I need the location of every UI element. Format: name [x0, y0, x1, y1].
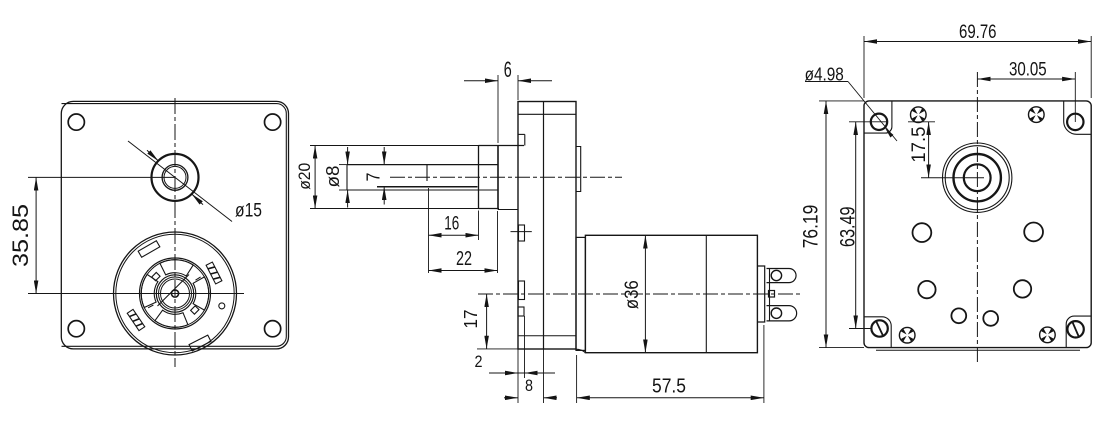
- dim 6 arrow left: [464, 80, 498, 82]
- shaft centerline: [390, 176, 622, 178]
- dimension 35.85: [8, 177, 36, 293]
- motor vent slot right: [193, 277, 209, 310]
- svg-text:ø36: ø36: [621, 280, 643, 309]
- dim 76.19 line: [825, 101, 827, 348]
- dia4.98 leader arrow: [885, 128, 894, 138]
- dim 22 extension left: [428, 240, 430, 273]
- motor can seam: [705, 235, 707, 352]
- front mounting plate outline: [61, 101, 288, 349]
- rear small hole 4: [1014, 280, 1031, 297]
- rear plate hidden edge below bottom: [876, 349, 1080, 351]
- front corner hole bottom-left: [68, 321, 84, 337]
- housing top lip line: [518, 113, 576, 115]
- leader arrow lower: [192, 194, 203, 205]
- dim 57.5 extension right: [763, 325, 765, 403]
- vertical centerline: [174, 98, 176, 367]
- dim 6 extension right: [517, 75, 519, 100]
- dim 69.76 extension right: [1090, 36, 1092, 98]
- hub ring 1: [156, 275, 193, 312]
- rear corner hole bottom-left slash: [876, 320, 884, 336]
- terminal lower: [767, 306, 797, 321]
- dim 69.76 extension left: [863, 36, 865, 98]
- shaft horizontal centerline: [28, 176, 175, 178]
- dim 8 arrow right: [544, 397, 558, 399]
- dim 2 arrow right: [525, 372, 537, 374]
- motor outer circle inner line: [116, 234, 234, 352]
- svg-text:35.85: 35.85: [8, 204, 33, 267]
- boss dia20 left face: [478, 146, 480, 209]
- boss on housing right face: [576, 147, 581, 192]
- dim 6 extension left: [497, 75, 499, 143]
- terminal upper hole: [771, 270, 781, 280]
- motor vent slot left: [141, 274, 158, 307]
- svg-text:ø8: ø8: [323, 166, 343, 188]
- motor rim tab top-right with label marks: [206, 262, 222, 284]
- front plate inner offset line: [62, 104, 287, 347]
- rear corner hole top-right: [1067, 114, 1083, 130]
- terminal upper: [767, 269, 797, 283]
- dim 16 extension left: [428, 188, 430, 240]
- dim 69.76 line: [864, 41, 1091, 43]
- rear corner pad bottom-left: [864, 317, 891, 348]
- dim 2 extension left: [517, 349, 519, 378]
- plate top step horizontal: [518, 133, 525, 135]
- motor mid ring outer: [140, 258, 211, 329]
- rear shaft bearing circle: [954, 154, 1001, 201]
- dimension dia8 extension stubs: [339, 164, 347, 166]
- shaft bore inner: [164, 166, 186, 188]
- svg-text:16: 16: [444, 214, 459, 235]
- dim 2 extension right: [524, 316, 526, 378]
- key notch lower-right: [191, 306, 199, 314]
- motor mid ring inner: [141, 260, 208, 327]
- leader line for shaft diameter: [128, 141, 232, 222]
- dimension dia20 line: [314, 146, 316, 209]
- SIDE VIEW: [295, 57, 800, 403]
- motor outer circle: [114, 232, 237, 355]
- dim 8 extension right: [543, 349, 545, 403]
- dim 7 arrow bottom: [383, 187, 385, 205]
- rear small hole 1: [913, 223, 932, 242]
- shaft flat edge: [426, 165, 428, 181]
- shaft flat surface line: [377, 186, 478, 188]
- svg-text:7: 7: [364, 173, 384, 182]
- plate pad face: [497, 146, 499, 210]
- rear corner hole bottom-left: [871, 320, 887, 336]
- hub diagonal slot line: [158, 275, 190, 307]
- svg-text:76.19: 76.19: [799, 205, 823, 249]
- dim 76.19 extension top: [819, 100, 864, 102]
- motor body: [585, 235, 757, 352]
- motor vent slot top: [160, 260, 193, 276]
- FRONT VIEW: [8, 98, 289, 367]
- dim 63.49 extension bottom: [849, 328, 871, 330]
- dim dia36 line: [644, 235, 646, 352]
- rear vertical centerline: [976, 72, 978, 364]
- motor rim tab top-left: [138, 241, 160, 258]
- screw top-left: [911, 107, 927, 123]
- dim 2 arrow left: [506, 372, 518, 374]
- screw bottom-left: [899, 327, 915, 343]
- svg-text:ø15: ø15: [235, 200, 262, 222]
- dim 17 bottom extension: [477, 348, 518, 350]
- small hole on motor face: [219, 303, 225, 309]
- housing inner vertical line: [543, 102, 545, 350]
- motor rim tab bottom-right: [189, 335, 211, 351]
- front corner hole bottom-right: [265, 321, 281, 337]
- rear small hole 2: [1024, 223, 1043, 242]
- terminal connector face: [769, 269, 771, 321]
- plate top step vertical: [524, 134, 526, 145]
- svg-text:ø20: ø20: [295, 163, 314, 190]
- small tab bottom: [518, 307, 524, 316]
- hub ring 3: [161, 279, 190, 308]
- rear shaft circle inner: [964, 164, 991, 191]
- screw bottom-right: [1040, 327, 1056, 343]
- rear shaft circle outer2: [945, 146, 1009, 210]
- svg-text:17: 17: [461, 310, 481, 329]
- rear small hole 5: [951, 308, 966, 323]
- locating tab lower: [519, 281, 525, 300]
- dim 22 line: [429, 270, 498, 272]
- front corner hole top-left: [68, 114, 84, 130]
- terminal lower hole: [771, 308, 781, 318]
- boss bottom edge: [479, 208, 500, 210]
- rear corner hole bottom-right: [1067, 321, 1083, 337]
- motor centerline: [478, 293, 800, 295]
- dim 63.49 extension top: [849, 121, 871, 123]
- dia4.98 leader diagonal: [848, 82, 897, 142]
- rear small hole 6: [983, 311, 998, 326]
- housing bottom step line: [518, 335, 576, 337]
- boss top edge: [479, 145, 525, 147]
- dim 6 arrow right: [518, 80, 552, 82]
- rear small hole 3: [918, 281, 935, 298]
- hub center circle: [171, 290, 178, 297]
- rear shaft circle outer: [943, 143, 1012, 212]
- output shaft boss circle: [152, 154, 199, 201]
- radial dash lower-left: [148, 305, 153, 308]
- tab upper tick mark: [511, 231, 532, 233]
- dim 63.49 line: [855, 122, 857, 329]
- dim 7 arrow top: [383, 147, 385, 165]
- dim 22 extension right: [497, 211, 499, 273]
- svg-text:2: 2: [475, 352, 483, 371]
- motor rim tab bottom-left with label marks: [127, 309, 145, 330]
- shaft bore outer: [162, 165, 188, 191]
- shaft top edge: [347, 164, 498, 166]
- motor brush cap: [757, 266, 764, 322]
- screw top-right: [1029, 107, 1045, 123]
- dim 16 extension right: [478, 211, 480, 241]
- dim 8 arrow left: [504, 397, 518, 399]
- dim 16 line: [429, 234, 479, 236]
- rear corner pad bottom-right: [1066, 316, 1091, 347]
- motor horizontal centerline: [28, 293, 244, 295]
- locating tab upper: [519, 225, 525, 241]
- plate pad bottom step: [498, 209, 518, 211]
- svg-text:30.05: 30.05: [1009, 60, 1047, 81]
- dim 17.5 top extension: [871, 121, 887, 123]
- dia4.98 leader underline: [805, 81, 848, 83]
- radial dash upper-right: [196, 277, 201, 280]
- shaft left end: [346, 165, 348, 190]
- capacitor between terminals: [769, 291, 775, 298]
- svg-text:69.76: 69.76: [959, 22, 997, 43]
- rear corner hole top-left: [871, 114, 887, 130]
- dimension dia20 extension bottom: [310, 208, 479, 210]
- dim 76.19 extension bottom: [819, 347, 864, 349]
- svg-text:22: 22: [456, 248, 472, 270]
- hub ring 2: [159, 277, 192, 310]
- dim 30.05 line: [977, 78, 1075, 80]
- dia8 arrow top: [347, 147, 349, 165]
- dia8 arrow bottom: [347, 190, 349, 208]
- dim 30.05 extension right: [1074, 72, 1076, 122]
- svg-text:63.49: 63.49: [836, 206, 860, 247]
- svg-text:17.5: 17.5: [908, 126, 930, 162]
- front corner hole top-right: [265, 114, 281, 130]
- REAR VIEW: [799, 22, 1092, 364]
- rear corner pad top-left: [864, 101, 892, 133]
- leader arrow upper: [147, 150, 158, 161]
- shaft bottom edge: [347, 189, 498, 191]
- svg-text:8: 8: [525, 377, 533, 395]
- motor front cap: [576, 237, 585, 350]
- dim 57.5 extension left: [576, 355, 578, 403]
- svg-text:6: 6: [504, 57, 512, 82]
- rear shaft horizontal centerline: [921, 177, 984, 179]
- dia8 ext bottom stub: [339, 189, 347, 191]
- motor vent slot bottom: [155, 310, 188, 327]
- dim 17.5 line: [928, 122, 930, 178]
- dim 2 leader line: [489, 372, 555, 374]
- rear corner hole bottom-right slash: [1072, 321, 1079, 338]
- gearbox housing outline: [518, 102, 576, 350]
- rear plate outline: [864, 101, 1091, 348]
- dimension dia20 extension top: [310, 145, 479, 147]
- dim 17 line: [486, 294, 488, 349]
- dim 57.5 line: [577, 397, 764, 399]
- dim 8 extension left: [517, 378, 519, 403]
- key notch upper-left: [152, 272, 160, 280]
- housing to motor fillet: [575, 349, 585, 353]
- rear corner pad top-right: [1064, 101, 1091, 134]
- svg-text:57.5: 57.5: [652, 376, 686, 398]
